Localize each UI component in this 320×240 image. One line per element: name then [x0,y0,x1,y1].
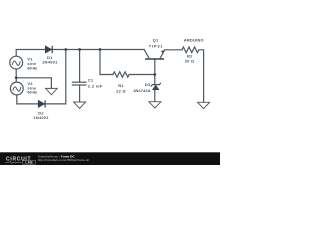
voltage source V2 [10,82,23,95]
voltage source V1 [10,56,23,69]
node dot riser/top rail [64,48,67,51]
svg-text:2.2 mF: 2.2 mF [88,84,103,89]
ground C1 [74,102,86,108]
wire C1 branch upper [79,50,81,83]
wire V1 to V2 [15,69,17,82]
wire R1 branch [100,50,113,75]
diode D2 [38,100,45,107]
svg-text:60 Hz: 60 Hz [27,65,37,70]
label Q1 [149,38,164,49]
zener diode D3 [151,83,161,90]
svg-text:1N4001: 1N4001 [33,115,49,120]
wire R1 to base node [129,74,155,76]
svg-text:R1: R1 [118,83,124,88]
svg-text:1N4001: 1N4001 [42,59,58,64]
capacitor C1 [72,82,87,85]
svg-text:22 Ω: 22 Ω [116,88,126,93]
wire C1 to ground [79,85,81,102]
node dot C1/top rail [78,48,81,51]
wire center tap to ground [16,78,51,89]
wire base node to zener D3 [154,75,156,85]
svg-text:D3: D3 [145,82,151,87]
svg-text:1N4742A: 1N4742A [133,88,151,93]
wire emitter to R2 [165,49,182,51]
wire D3 to ground [154,90,156,102]
label D2 [33,111,49,120]
svg-text:TIP31: TIP31 [149,44,164,49]
node dot base node [153,73,156,76]
label C1 [88,78,103,89]
svg-text:Q1: Q1 [153,38,159,43]
svg-text:LAB: LAB [25,161,33,165]
label D1 [42,55,58,64]
label V2 [27,81,37,95]
svg-text:http://circuitlab.com/c/59fb2n: http://circuitlab.com/c/59fb2n/fonte-dc [38,158,90,162]
wire R2 to ground [199,50,204,102]
wire top rail [16,50,144,57]
label R2 [185,54,195,64]
wire Q1 base stub [154,59,156,74]
label V1 [27,57,37,71]
ground D3 [149,102,161,108]
resistor R2 [182,47,199,53]
ground R2 [198,102,210,108]
svg-text:C1: C1 [88,78,94,83]
diode D1 [45,46,52,53]
node dot center tap [15,76,18,79]
label R1 [116,83,126,94]
label D3 [133,82,151,93]
footer bar [0,152,220,165]
svg-text:20 Ω: 20 Ω [185,58,195,63]
svg-text:ARDUINO: ARDUINO [184,38,204,43]
wire bottom rail V2 to riser [17,50,66,104]
ground center tap [46,88,58,94]
resistor R1 [113,72,129,77]
transistor Q1 [144,50,164,59]
svg-text:60 Hz: 60 Hz [27,90,37,95]
footer logo wave [6,161,22,164]
footer logo LAB box [23,161,36,165]
node dot R1 branch/top rail [99,48,102,51]
